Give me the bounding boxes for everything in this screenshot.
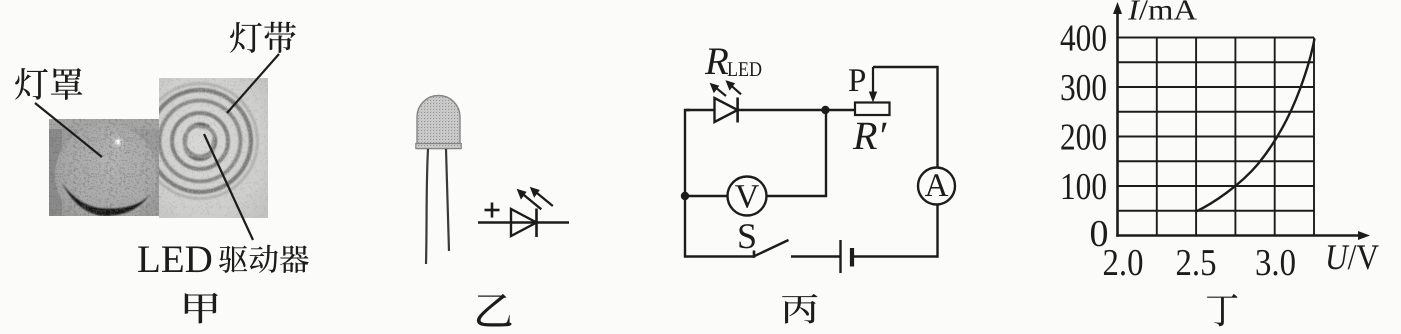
panel label jia [185,293,218,324]
label dengzhao (lamp cover) [15,68,82,100]
LED component body (dome) [416,96,461,149]
svg-text:300: 300 [1060,67,1107,109]
junction node left [681,192,689,200]
svg-text:U/V: U/V [1325,237,1379,277]
rheostat slider arrow P [869,67,877,103]
graph grid [1118,38,1315,236]
leader line to light strip [227,54,279,113]
svg-text:S: S [737,216,757,256]
LED symbol emission arrows [517,187,553,209]
LED R_LED emission arrows [710,80,741,96]
svg-text:R′: R′ [852,113,887,158]
x axis U [1116,231,1370,240]
LED symbol plus sign [485,203,500,218]
leader line to lamp cover [35,103,102,157]
switch S blade and contact [754,240,789,258]
LED symbol wire [478,221,569,223]
svg-text:3.0: 3.0 [1255,242,1296,284]
wire: voltmeter to top junction [767,110,827,196]
panel label yi [477,294,512,327]
wire: node to voltmeter [685,195,728,197]
svg-text:LED: LED [137,238,213,281]
svg-text:P: P [848,63,866,99]
svg-text:100: 100 [1060,166,1107,208]
label LED driver [137,238,309,281]
svg-text:I/mA: I/mA [1127,0,1197,27]
svg-text:400: 400 [1060,17,1107,59]
LED R_LED cathode bar [736,98,739,123]
svg-text:A: A [925,168,949,204]
ammeter A [918,168,955,205]
y tick labels [1060,17,1109,255]
wire: LED to rheostat with junction [738,109,855,111]
panel label bing [782,294,817,324]
battery cell [841,240,853,273]
axis title U/V [1325,237,1379,277]
x tick labels [1103,242,1297,284]
rheostat R' body [855,103,890,116]
svg-text:LED: LED [727,57,762,81]
LED R_LED diode triangle [715,98,738,122]
photo: LED light strip rings (right half) [139,78,269,218]
svg-text:2.5: 2.5 [1176,242,1217,284]
junction node top [821,106,829,114]
leader line to LED driver [204,134,253,240]
voltmeter V [728,177,767,216]
label dengdai (light strip) [230,22,296,53]
panel label ding [1207,294,1237,326]
I-U characteristic curve [1196,39,1315,212]
axis title I/mA [1127,0,1197,27]
y axis I [1113,2,1122,237]
wire: battery to switch [791,255,841,257]
wire: ammeter down to bottom right corner to battery [852,205,938,257]
svg-text:200: 200 [1060,116,1107,158]
svg-text:R: R [704,40,729,83]
label R_LED [704,40,762,83]
LED symbol cathode bar [535,209,538,238]
wire: switch to left side up [685,110,755,257]
LED component legs [426,149,428,264]
wire: slider to right side down to ammeter [873,67,938,168]
svg-text:V: V [735,179,760,216]
svg-text:2.0: 2.0 [1103,242,1144,284]
wire: top left from corner to LED [686,109,714,111]
LED symbol diode triangle [511,209,537,236]
